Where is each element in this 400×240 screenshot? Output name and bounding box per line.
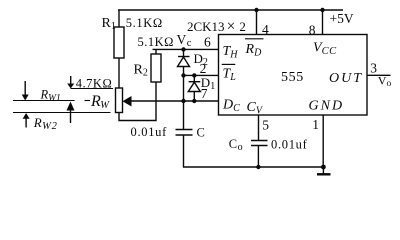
svg-text:OUT: OUT — [329, 71, 363, 86]
diode D1 — [188, 82, 200, 92]
wire R1 bottom lead — [118, 58, 120, 88]
wire Vc to D2 — [183, 49, 185, 56]
node pin4 junction — [254, 8, 258, 12]
wire ground rail — [183, 166, 324, 168]
wire top +5V rail — [118, 9, 343, 11]
wire pin8 drop — [322, 10, 324, 35]
ground — [317, 167, 331, 174]
svg-text:+5V: +5V — [330, 11, 354, 26]
annotation line RW1 level dash segment — [85, 100, 91, 102]
wire Vc node to pin6 — [153, 48, 219, 50]
svg-text:7: 7 — [201, 86, 208, 101]
capacitor C — [176, 130, 193, 136]
svg-text:5.1KΩ: 5.1KΩ — [126, 16, 163, 30]
svg-text:2: 2 — [200, 61, 207, 76]
svg-text:555: 555 — [281, 70, 304, 85]
wire R1 top lead — [118, 10, 120, 27]
svg-text:0.01uf: 0.01uf — [131, 125, 168, 139]
svg-text:C: C — [197, 126, 205, 140]
wire pin4 drop — [256, 10, 258, 35]
svg-text:6: 6 — [204, 34, 211, 49]
node Vc junction — [181, 47, 185, 51]
wire pot bottom lead — [119, 82, 156, 121]
annotation line 4.7K level — [71, 88, 114, 90]
capacitor Co — [251, 141, 268, 146]
svg-text:8: 8 — [309, 23, 316, 38]
wire D1 bottom lead — [193, 92, 195, 102]
annotation down arrow right — [67, 76, 74, 89]
resistor R1 — [114, 27, 124, 58]
diode D2 — [178, 57, 190, 67]
node D1 bottom junction — [192, 99, 196, 103]
node chain A bottom junction — [181, 99, 185, 103]
node pin8 junction — [320, 8, 324, 12]
node D2 bottom junction — [181, 73, 185, 77]
svg-text:1: 1 — [312, 117, 319, 132]
annotation line RW1 level — [13, 100, 75, 102]
svg-text:5.1KΩ: 5.1KΩ — [138, 35, 174, 49]
wire chain A to cap C — [183, 101, 185, 130]
wire pin1 drop — [322, 115, 324, 167]
wire D1 top lead — [193, 75, 195, 81]
node ground junction — [321, 165, 326, 170]
wire pin5 drop — [258, 115, 260, 141]
svg-text:0.01uf: 0.01uf — [271, 137, 308, 151]
node Co rail junction — [256, 165, 260, 169]
wire Co bottom lead — [257, 146, 259, 168]
svg-text:4.7KΩ: 4.7KΩ — [76, 77, 112, 91]
potentiometer RW body — [116, 88, 123, 113]
wire wiper to pin7 — [131, 100, 219, 102]
IC U1 555 timer body — [219, 35, 368, 116]
wire pin2 — [184, 74, 219, 76]
node D1 top junction — [192, 73, 196, 77]
svg-text:5: 5 — [262, 117, 269, 132]
wire cap C to ground rail — [183, 135, 185, 167]
annotation up arrow right — [67, 102, 75, 124]
wire D2 to wire2 — [183, 67, 185, 76]
annotation down arrow left — [22, 81, 29, 101]
svg-text:4: 4 — [262, 22, 269, 37]
wire R2 top lead — [155, 49, 157, 54]
annotation up arrow left — [23, 113, 30, 128]
resistor R2 — [151, 54, 161, 82]
annotation line RW2 level — [13, 112, 111, 114]
svg-text:GND: GND — [309, 99, 345, 114]
wire chain A wire2 to wire7 — [183, 75, 185, 101]
wire pin3 out — [367, 74, 391, 76]
potentiometer wiper arrow — [123, 96, 132, 107]
svg-text:3: 3 — [370, 60, 377, 75]
